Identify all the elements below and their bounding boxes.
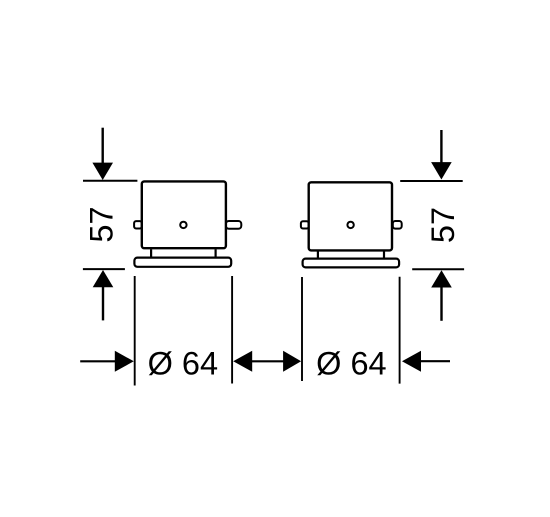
dim line 57 left: bottom vertical line bbox=[102, 287, 104, 320]
dim arrow 57 right bottom (up) bbox=[431, 270, 452, 287]
extension line below left plate, right bbox=[231, 276, 233, 384]
right valve neck left line bbox=[317, 250, 319, 258]
dim line O64 left: tail bbox=[80, 360, 115, 362]
left valve base plate bbox=[134, 258, 231, 267]
svg-text:57: 57 bbox=[83, 206, 119, 242]
left valve body bbox=[142, 181, 226, 248]
dim arrow O64 right inner (right-pointing) bbox=[283, 351, 301, 372]
left valve neck left line bbox=[150, 249, 152, 257]
right valve base plate bbox=[303, 259, 400, 268]
left valve center screw bbox=[180, 222, 186, 228]
svg-text:Ø 64: Ø 64 bbox=[148, 345, 218, 381]
svg-text:Ø 64: Ø 64 bbox=[316, 345, 386, 381]
dim line 57 left: top vertical line bbox=[101, 128, 103, 164]
extension line right top bbox=[400, 180, 463, 182]
right valve neck right line bbox=[383, 250, 385, 258]
dim arrow 57 right top (down) bbox=[431, 162, 452, 179]
dim line between valves bbox=[252, 360, 284, 362]
extension line left top bbox=[83, 180, 137, 182]
dim line 57 right: bottom vertical line bbox=[440, 287, 442, 321]
dim arrow O64 left outer (right-pointing) bbox=[115, 351, 134, 372]
dim arrow 57 left bottom (up) bbox=[93, 270, 114, 287]
extension line below right plate, right bbox=[399, 277, 401, 384]
right valve left ear bbox=[301, 221, 309, 228]
right valve center screw bbox=[347, 222, 353, 228]
right valve body bbox=[309, 182, 392, 250]
dim arrow O64 right outer (left-pointing) bbox=[402, 351, 421, 372]
svg-text:57: 57 bbox=[425, 207, 461, 243]
dim line O64 right: tail bbox=[420, 360, 450, 362]
dim arrow 57 left top (down) bbox=[92, 163, 113, 180]
extension line right bottom bbox=[412, 268, 464, 270]
left valve neck right line bbox=[215, 249, 217, 257]
extension line below left plate, left bbox=[134, 276, 136, 386]
extension line left bottom bbox=[83, 268, 125, 270]
dim arrow O64 left inner (left-pointing) bbox=[233, 351, 252, 372]
left valve left ear bbox=[134, 221, 142, 228]
left valve right ear bbox=[226, 221, 241, 229]
dim line 57 right: top vertical line bbox=[440, 130, 442, 163]
right valve right ear bbox=[393, 221, 402, 229]
extension line below right plate, left bbox=[301, 277, 303, 381]
